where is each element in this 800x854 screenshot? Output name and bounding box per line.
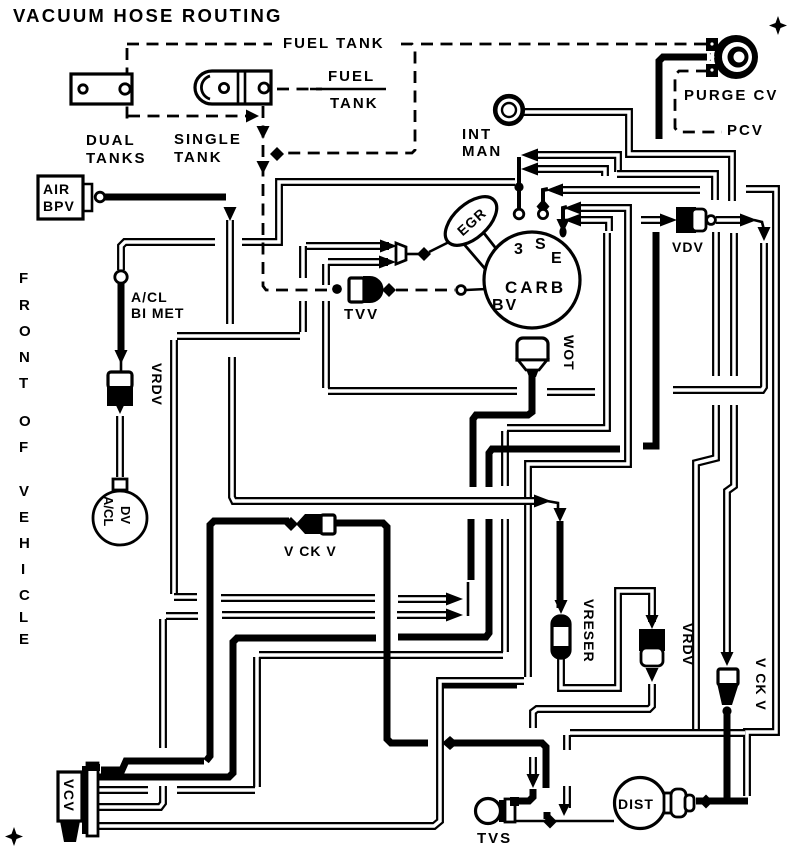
label: INT MAN — [462, 126, 502, 160]
svg-text:PURGE CV: PURGE CV — [684, 87, 778, 104]
wire: tvs bottom drop — [505, 810, 508, 820]
wire: VCK V right thick to dist line — [724, 714, 731, 798]
svg-text:E: E — [19, 509, 31, 526]
wire: x567 drop upper — [566, 735, 568, 750]
svg-text:E: E — [19, 631, 31, 648]
arrow: carb portE stem down — [557, 219, 570, 233]
wire: carb portE branch link — [563, 219, 570, 222]
wire: WOT junction link — [467, 582, 470, 616]
svg-text:O: O — [19, 413, 33, 430]
dashed fuel tank right of text — [286, 44, 415, 153]
wire: VDV output bend — [754, 220, 764, 230]
component: purge CV valve — [706, 35, 758, 79]
wire: carb port S stub — [556, 189, 700, 191]
arrow: wireD into carb portE stem — [564, 202, 581, 215]
wire: EGR line 1 x174 drop — [173, 340, 175, 594]
label: FRONT OF VEHICLE vertical — [19, 270, 33, 648]
svg-text:CARB: CARB — [505, 278, 566, 297]
wire: x567 drop lower — [566, 786, 568, 808]
diamond: EGR link — [417, 247, 431, 261]
arrow: WOT junction lower — [446, 609, 463, 622]
wire: WOT thick drop — [473, 367, 532, 487]
diamond: dist line x550 — [543, 815, 557, 829]
component: VCK V middle — [296, 514, 335, 534]
wire: purge CV thick — [659, 57, 711, 139]
wire: y655 run — [259, 654, 503, 656]
wire: column x734 lower to VCK V — [727, 405, 734, 657]
port: carb portE black — [559, 227, 566, 238]
arrow: x533 down to TVS — [527, 774, 540, 788]
wire: EGR line 1 x303 lower — [302, 301, 304, 332]
wire: branch D lower run to VCV port 5 — [98, 681, 524, 826]
wire: VRDV output to x533 — [533, 684, 652, 728]
component: DIST — [615, 778, 695, 829]
component: ACL DV circle — [93, 479, 147, 545]
svg-text:A/CL: A/CL — [101, 496, 116, 526]
svg-text:TVS: TVS — [477, 830, 512, 847]
wire: EGR line 2 arrow run — [328, 261, 388, 263]
svg-text:T: T — [19, 375, 30, 392]
dashed single tank drop — [263, 106, 330, 290]
label: A/CL BI MET — [131, 289, 184, 321]
svg-text:DUAL: DUAL — [86, 132, 136, 149]
arrow: VRDV output down — [646, 668, 659, 682]
arrow: wire1 into carb port3 — [521, 149, 538, 162]
wire: y392 stub right — [547, 391, 595, 393]
wire: VCK V loop left — [206, 521, 289, 761]
svg-text:V CK V: V CK V — [284, 543, 337, 559]
diamond: fuel tank dashed junction — [270, 147, 284, 161]
port circle: TVV dashed at carb — [457, 286, 466, 295]
svg-text:FUEL TANK: FUEL TANK — [283, 35, 385, 52]
component: EGR hose connector — [396, 243, 406, 264]
wire: thick riser to VRESER — [557, 521, 564, 608]
arrow: wireC into carb portS — [546, 184, 563, 197]
arrow: EGR line1 into connector — [380, 240, 397, 253]
svg-text:VRDV: VRDV — [680, 623, 696, 666]
wire: y392 run — [328, 390, 517, 392]
diamond: TVV right — [382, 283, 396, 297]
wire: thick y637 to VCV port 2 — [98, 638, 376, 777]
wire: VDV output drop and stub — [673, 243, 764, 390]
svg-text:R: R — [19, 297, 32, 314]
dot: carb port3 junction — [514, 182, 523, 191]
svg-text:VRESER: VRESER — [581, 599, 597, 663]
svg-text:VACUUM HOSE ROUTING: VACUUM HOSE ROUTING — [13, 5, 283, 26]
component: VCK V right — [717, 669, 739, 705]
dashed dual tanks branch — [128, 115, 247, 118]
port circle: AIR BPV — [95, 192, 105, 202]
wire: carb port E lower branch corner — [577, 220, 609, 231]
wire: y615 right segment — [397, 614, 451, 616]
svg-text:VCV: VCV — [61, 779, 77, 812]
wire: carb portE stem — [563, 207, 567, 236]
component: carburetor circle — [484, 232, 580, 328]
dashed single tank to fuel label — [277, 88, 322, 91]
svg-text:V: V — [19, 483, 31, 500]
svg-text:FUEL: FUEL — [328, 68, 375, 85]
wire: y501 to x560 link — [547, 501, 558, 514]
component: VRESER capsule — [552, 615, 570, 659]
svg-text:TANK: TANK — [330, 95, 379, 112]
wire: y790 run to VCV port 3 — [177, 789, 255, 791]
wire: EGR line 2 x326 lower — [325, 301, 327, 388]
dashed PCV elbow — [675, 71, 722, 132]
component: VRDV left — [107, 372, 133, 406]
wire: TVV to carb link — [466, 289, 486, 290]
svg-text:PCV: PCV — [727, 122, 764, 139]
wire: VRDV stem top — [118, 283, 125, 354]
wire: y242 left segment — [121, 242, 215, 270]
arrow: AIR BPV wire down — [224, 207, 237, 221]
wire: x257 drop — [256, 657, 258, 787]
svg-text:C: C — [19, 587, 32, 604]
arrow: wire2 into carb port3 — [521, 163, 538, 176]
arrow: EGR line2 into connector — [379, 256, 396, 269]
arrow: single tank line down 2 — [257, 161, 270, 174]
port circle: VDV output — [707, 216, 716, 225]
svg-text:3: 3 — [514, 241, 523, 258]
arrow: VDV output right — [740, 214, 757, 227]
wire: x547 to dist line — [544, 812, 551, 819]
svg-text:DV: DV — [118, 506, 133, 524]
label: plus top right — [769, 16, 787, 35]
port circle: ACL BI MET — [115, 271, 127, 283]
wire: column x716 upper — [715, 232, 717, 376]
wire: AIR BPV drop upper — [229, 220, 231, 324]
component: WOT — [517, 338, 548, 377]
wire: y615 middle segment — [222, 614, 375, 616]
svg-text:L: L — [19, 609, 30, 626]
wire: x505 segment lower — [504, 519, 506, 652]
svg-text:N: N — [19, 349, 32, 366]
svg-text:BI MET: BI MET — [131, 305, 184, 321]
svg-text:S: S — [535, 236, 546, 253]
arrow: link into ACL DV — [114, 400, 127, 414]
port circle: carb portS — [538, 209, 547, 218]
component: AIR BPV box — [38, 176, 92, 219]
svg-text:O: O — [19, 323, 33, 340]
wire: VCK V loop right y743 — [446, 743, 546, 788]
component: INT MAN port — [495, 96, 523, 124]
wire: VCK V loop right upper — [336, 523, 428, 743]
wire: EGR connector link — [406, 253, 419, 256]
arrow: VRDV left stem down — [115, 350, 128, 364]
component: VDV — [676, 207, 706, 233]
diamond: y743 junction — [442, 736, 458, 750]
wire: y242 to carb port3 vertical tee — [242, 182, 515, 242]
svg-text:VDV: VDV — [672, 239, 704, 255]
svg-text:H: H — [19, 535, 32, 552]
arrow: VDV input — [660, 214, 677, 227]
wire: VDV output — [716, 219, 744, 221]
svg-text:E: E — [551, 250, 562, 267]
dashed dual tanks drop — [126, 48, 129, 126]
svg-text:MAN: MAN — [462, 143, 502, 160]
wire: EGR line 1 arrow run — [306, 245, 389, 247]
svg-text:F: F — [19, 439, 30, 456]
wire: AIR BPV thick — [105, 194, 226, 201]
component: single tank sender — [195, 71, 271, 104]
svg-text:AIR: AIR — [43, 181, 70, 197]
arrow: y501 into x560 — [534, 495, 551, 508]
arrow: x734 into VCK V right — [721, 652, 734, 666]
wire: thick under-edge near y686 — [442, 684, 517, 689]
wire: y615 left segment — [166, 615, 198, 617]
dashed TVV to carb — [396, 289, 455, 292]
component: VRDV bottom — [639, 629, 665, 666]
svg-text:INT: INT — [462, 126, 492, 143]
wire: WOT thick drop lower — [468, 519, 475, 580]
svg-text:DIST: DIST — [618, 796, 654, 812]
wire: VRDV stem neck — [120, 360, 123, 372]
dot: VCK V right bottom — [722, 706, 731, 715]
arrow: x567 into dist line — [559, 804, 571, 816]
wire: VDV area thick x489 lower — [398, 519, 489, 637]
wire: EGR line 1 y336 run — [177, 335, 300, 337]
wire: dist connector thick — [696, 798, 748, 805]
component: EGR valve — [437, 188, 506, 271]
wire: tvs bottom line to dist — [507, 820, 614, 823]
wire: y733 run — [570, 732, 745, 734]
wire: carb port E upper branch D down left column — [528, 208, 628, 677]
component: TVV — [332, 276, 383, 303]
wire: VDV area thick upper — [643, 232, 656, 446]
wire: x533 lower — [532, 757, 534, 780]
wire: carb port E lower branch E via x607 — [507, 233, 607, 428]
component: dual tanks sender — [71, 74, 132, 104]
arrow: x560 into VRESER — [555, 600, 568, 614]
diamond: dist line x706 — [699, 795, 713, 809]
arrow: dashed branch into single tank line — [246, 110, 259, 123]
component: VCV — [58, 763, 100, 842]
wire: AIR BPV drop lower and y501 run — [232, 357, 539, 501]
arrow: VRESER into VRDV — [646, 615, 659, 629]
svg-text:TANKS: TANKS — [86, 150, 147, 167]
wire: VDV area thick y449 — [489, 449, 620, 487]
wire: EGR line 1 x303 upper — [302, 246, 304, 278]
wire: y790 stub at VCV — [98, 789, 148, 791]
svg-text:WOT: WOT — [561, 335, 577, 371]
svg-text:BPV: BPV — [43, 198, 75, 214]
wire: x505 segment — [504, 431, 506, 486]
svg-text:BV: BV — [492, 297, 518, 314]
arrow: x560 down — [554, 508, 567, 522]
label: SINGLE TANK — [174, 131, 242, 166]
wire: right edge riser to distributor line — [746, 189, 776, 796]
wire: carb port 3 branch 1 — [535, 155, 618, 172]
arrow: VDV output down — [758, 227, 771, 241]
dashed fuel tank main — [127, 43, 272, 46]
wire: VRESER to VRDV — [561, 591, 652, 688]
wire: carb portS stem — [543, 189, 548, 210]
dot: carb portS junction — [537, 199, 550, 214]
wire: carb port 3 trunk to right column cap — [617, 174, 715, 200]
wire: INT MAN to right column (hollow) — [523, 112, 732, 201]
svg-text:V CK V: V CK V — [753, 658, 769, 711]
svg-text:VRDV: VRDV — [149, 363, 165, 406]
wire: y597 stub left — [174, 596, 197, 598]
svg-text:F: F — [19, 270, 30, 287]
wire: y597 right to WOT junction — [398, 598, 451, 600]
wire: TVS elbow — [516, 789, 533, 801]
diamond: TVV left dot — [332, 284, 342, 294]
wire: x163 drop — [162, 619, 164, 748]
wire: EGR diamond to valve link — [429, 240, 453, 252]
label: FUEL/TANK right — [310, 68, 386, 112]
port circle: carb port3 — [514, 209, 524, 219]
label: plus bottom left — [5, 827, 23, 846]
svg-text:SINGLE: SINGLE — [174, 131, 242, 148]
wire: VDV input — [641, 219, 666, 221]
wire: carb port 3 branch 2 hook — [536, 169, 605, 176]
svg-text:TVV: TVV — [344, 306, 379, 323]
arrow: WOT junction upper — [446, 593, 463, 606]
arrow: wireE into carb portE stem — [564, 214, 581, 227]
component: TVS — [476, 797, 520, 824]
arrow: single tank line down 1 — [257, 126, 270, 139]
wire: EGR line 2 x326 upper — [325, 264, 327, 285]
diamond: VCK V left — [284, 517, 298, 531]
svg-text:TANK: TANK — [174, 149, 223, 166]
svg-text:I: I — [21, 561, 27, 578]
wire: VCV port 1 link — [101, 761, 204, 770]
wire: x163 to VCV port 4 — [98, 786, 163, 807]
wire: column x734 upper — [733, 233, 735, 376]
wire: VRDV to ACL DV — [119, 416, 121, 477]
dashed fuel tank to purge cv — [421, 43, 706, 46]
wire: y597 middle — [221, 597, 375, 599]
label: DUAL TANKS — [86, 132, 147, 167]
svg-text:A/CL: A/CL — [131, 289, 168, 305]
wire: column x716 lower with jog — [696, 405, 716, 729]
wire: carb port3 stem — [517, 157, 521, 212]
